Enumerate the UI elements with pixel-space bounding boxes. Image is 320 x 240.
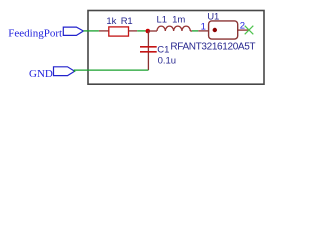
boundary rectangle [88, 11, 264, 85]
wire L1 to U1 [192, 30, 198, 32]
pin C1.1 (vertical stem from node through plates) [147, 31, 149, 70]
svg-text:C1: C1 [157, 45, 169, 56]
svg-text:1m: 1m [172, 15, 185, 26]
svg-text:GND: GND [29, 68, 53, 80]
svg-text:1k: 1k [106, 16, 116, 27]
pin L1.1 [148, 30, 157, 32]
resistor R1 body [109, 27, 129, 36]
wire R1 to node [137, 30, 145, 32]
port FeedingPort symbol [63, 27, 83, 35]
svg-text:L1: L1 [157, 15, 168, 26]
pin L1.2 [190, 30, 192, 32]
inductor L1 body (4 humps) [157, 26, 190, 31]
svg-text:FeedingPort: FeedingPort [8, 28, 62, 40]
svg-text:RFANT3216120A5T: RFANT3216120A5T [170, 42, 255, 53]
pin U1.2 [238, 29, 249, 31]
svg-text:1: 1 [201, 22, 206, 33]
svg-text:R1: R1 [121, 16, 133, 27]
port GND symbol [54, 67, 75, 76]
antenna U1 feed dot [213, 28, 217, 32]
junction node [146, 29, 151, 34]
wire GND to C1 [74, 70, 148, 72]
sheet background [0, 0, 274, 95]
pin R1.1 [99, 30, 109, 32]
svg-text:2: 2 [240, 20, 245, 31]
pin R1.2 [129, 30, 138, 32]
capacitor C1 top plate [140, 46, 157, 48]
no-ERC marker on pin U1.2 [245, 26, 254, 35]
wire FeedingPort to R1 [83, 30, 99, 32]
pin U1.1 [198, 30, 208, 32]
svg-text:0.1u: 0.1u [158, 55, 177, 66]
antenna U1 body [209, 21, 238, 39]
capacitor C1 bottom plate [140, 51, 157, 53]
